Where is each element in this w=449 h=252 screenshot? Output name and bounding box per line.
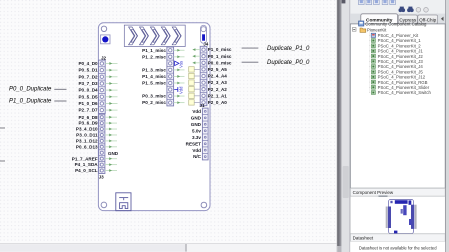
mounting hole top-right (201, 27, 206, 32)
component preview thumbnail (350, 195, 445, 233)
svg-text:N/C: N/C (193, 154, 202, 159)
PSoC 4 Pioneer Kit board outline U1 (98, 23, 210, 211)
off-chip terminal (yellow) (189, 73, 201, 78)
wire (105, 134, 117, 137)
wire (105, 145, 117, 148)
pin label P4_0_SCL (75, 168, 98, 173)
datasheet message (350, 241, 445, 252)
svg-text:P3_5_D5: P3_5_D5 (78, 94, 98, 99)
wire (105, 116, 117, 119)
pin label P3_4_D10 (76, 127, 98, 132)
svg-text:Vdd: Vdd (192, 109, 201, 114)
svg-text:P1_1_misc: P1_1_misc (142, 48, 166, 53)
wire (105, 69, 117, 72)
pin label P1_1_misc (142, 48, 166, 53)
svg-text:P0_7_D2: P0_7_D2 (78, 74, 98, 79)
wire (105, 163, 117, 166)
wire (105, 109, 117, 112)
power symbol Vss (175, 61, 184, 68)
off-chip terminal (yellow) (189, 67, 201, 72)
svg-text:J3: J3 (99, 175, 105, 180)
wire (105, 82, 117, 85)
tree item PSoC_4_PioneerKit_Switch (369, 90, 431, 95)
pin label P2_4_A4 (208, 74, 228, 79)
switch SW1 (101, 35, 110, 44)
svg-text:J1: J1 (200, 103, 206, 108)
wire (105, 75, 117, 78)
svg-text:P4_1_SDA: P4_1_SDA (75, 162, 99, 167)
component catalog tree (350, 21, 445, 188)
power symbol Vdd (174, 86, 183, 94)
pin label P2_7_D7 (78, 108, 98, 113)
wire (105, 102, 117, 105)
svg-text:Vss: Vss (179, 61, 184, 68)
chevron logo graphic (124, 25, 185, 46)
connector reference J3 (99, 175, 105, 180)
mounting hole bottom-right (201, 202, 207, 208)
svg-text:P0_3_misc: P0_3_misc (142, 94, 166, 99)
svg-text:J2: J2 (101, 55, 107, 60)
tree item PSoC_4_PioneerKit_J4 (369, 64, 423, 69)
wire (105, 89, 117, 92)
pin label P3_0_D11 (76, 133, 98, 138)
wire (105, 95, 117, 98)
LED D1 (201, 25, 207, 43)
svg-text:P0_1_misc: P0_1_misc (208, 54, 232, 59)
svg-text:P3_1_D12: P3_1_D12 (76, 138, 98, 143)
svg-text:P2_1_A1: P2_1_A1 (208, 93, 228, 98)
schematic canvas background (0, 0, 337, 252)
svg-text:P1_0_Duplicate: P1_0_Duplicate (9, 99, 52, 105)
svg-text:Duplicate_P0_0: Duplicate_P0_0 (267, 60, 310, 66)
pin label P0_5_D1 (78, 68, 98, 73)
pin label P0_4_D0 (78, 61, 98, 66)
pin label P1_5_misc (142, 81, 166, 86)
connector J2 (99, 60, 106, 113)
connector J12 (167, 47, 174, 106)
wire (105, 128, 117, 131)
connector J3 (99, 114, 105, 173)
svg-text:P2_5_A5: P2_5_A5 (208, 67, 228, 72)
svg-text:Component Preview: Component Preview (353, 190, 394, 195)
off-chip terminal (yellow) (189, 87, 201, 92)
wire (174, 95, 185, 98)
pin label P0_1_misc (208, 54, 232, 59)
svg-text:P2_2_A2: P2_2_A2 (208, 87, 228, 92)
wire (174, 82, 185, 85)
svg-text:P2_4_A4: P2_4_A4 (208, 74, 228, 79)
svg-text:P2_6_D8: P2_6_D8 (78, 115, 98, 120)
mounting hole top-left (101, 26, 106, 31)
Datasheet header (350, 234, 445, 242)
pin label P2_3_A3 (208, 80, 228, 85)
pin label P3_1_D12 (76, 138, 98, 143)
pin label P0_2_misc (142, 100, 166, 105)
pin label P1_7_AREF (72, 156, 98, 161)
svg-text:P2_3_A3: P2_3_A3 (208, 80, 228, 85)
wire (242, 61, 259, 63)
pin label Vdd (192, 148, 201, 153)
svg-text:PSoC_4_PioneerKit_Switch: PSoC_4_PioneerKit_Switch (378, 90, 432, 95)
svg-text:P3_7_D3: P3_7_D3 (78, 81, 98, 86)
pin label P0_3_misc (142, 94, 166, 99)
svg-text:P3_4_D10: P3_4_D10 (76, 127, 98, 132)
off-chip terminal (yellow) (189, 80, 201, 85)
svg-text:Datasheet is not available for: Datasheet is not available for the selec… (359, 245, 437, 250)
pin label P1_0_misc (208, 47, 232, 52)
toolbar icons (clipped) (359, 0, 396, 5)
svg-text:RESET: RESET (186, 141, 202, 146)
svg-text:P1_7_AREF: P1_7_AREF (72, 156, 98, 161)
svg-text:Datasheet: Datasheet (353, 236, 374, 241)
net label P0_0_Duplicate (9, 86, 52, 92)
svg-text:P1_0_misc: P1_0_misc (208, 47, 232, 52)
wire (193, 48, 201, 51)
wire (105, 157, 117, 160)
svg-text:P0_0_misc: P0_0_misc (208, 60, 232, 65)
canvas scrollbar / window edge (337, 0, 351, 252)
wire (54, 88, 66, 90)
svg-text:P2_0_A0: P2_0_A0 (208, 100, 228, 105)
off-chip terminal (yellow) (189, 93, 201, 98)
Component Preview header (350, 188, 445, 196)
tree item PSoC_4_PioneerKit_2 (369, 43, 421, 48)
pin label P0_0_misc (208, 60, 232, 65)
pin label GND (191, 122, 202, 127)
svg-text:P3_0_D11: P3_0_D11 (76, 133, 98, 138)
tree item PSoC_4_PioneerKit_Slider (369, 85, 429, 90)
pin label P2_6_D8 (78, 115, 98, 120)
svg-text:P1_5_misc: P1_5_misc (142, 81, 166, 86)
tree item PSoC_4_PioneerKit_1 (369, 38, 421, 43)
connector reference J1 (200, 103, 206, 108)
svg-text:P1_0_D6: P1_0_D6 (78, 101, 98, 106)
tree item PSoC_4_PioneerKit_J5 (369, 69, 423, 74)
svg-text:Duplicate_P1_0: Duplicate_P1_0 (267, 46, 310, 52)
svg-text:P2_7_D7: P2_7_D7 (78, 108, 98, 113)
pin label GND (191, 115, 202, 120)
pin label P1_3_misc (142, 67, 166, 72)
svg-text:J4: J4 (203, 42, 209, 47)
svg-text:GND: GND (191, 115, 202, 120)
tree item PSoC_4_PioneerKit_J2 (369, 54, 423, 59)
svg-text:Vdd: Vdd (192, 148, 201, 153)
net label Duplicate_P1_0 (267, 46, 310, 52)
wire (54, 100, 66, 102)
tree item PSoC_4_PioneerKit_J1 (369, 49, 423, 54)
svg-text:P4_0_SCL: P4_0_SCL (75, 168, 98, 173)
right panel background (350, 0, 449, 252)
pin label P2_2_A2 (208, 87, 228, 92)
svg-text:P0_0_Duplicate: P0_0_Duplicate (9, 86, 52, 92)
svg-text:Vdd: Vdd (179, 86, 184, 94)
connector reference J4 (203, 42, 209, 47)
svg-text:P3_6_D9: P3_6_D9 (78, 121, 98, 126)
pin label P1_4_misc (142, 74, 166, 79)
USB connector J10 (116, 193, 131, 211)
pin label 3.3v (192, 135, 201, 140)
pin label P2_1_A1 (208, 93, 228, 98)
svg-text:P1_3_misc: P1_3_misc (142, 67, 166, 72)
pin label P3_6_D9 (78, 121, 98, 126)
connector reference J2 (101, 55, 107, 60)
pin label P3_5_D5 (78, 94, 98, 99)
net label Duplicate_P0_0 (267, 60, 310, 66)
pin label RESET (186, 141, 202, 146)
connector J4 (200, 46, 207, 105)
search toolbar icons (399, 7, 429, 13)
pin label P0_7_D2 (78, 74, 98, 79)
svg-text:P0_2_misc: P0_2_misc (142, 100, 166, 105)
mounting hole bottom-left (101, 202, 107, 208)
pin label P3_7_D3 (78, 81, 98, 86)
svg-text:PioneerKit: PioneerKit (367, 28, 387, 33)
wire (105, 122, 117, 125)
svg-text:P1_2_misc: P1_2_misc (142, 54, 166, 59)
wire (242, 47, 259, 49)
svg-text:5.0v: 5.0v (192, 128, 201, 133)
wire (174, 75, 185, 78)
wire (174, 49, 185, 52)
pin label P0_0_D4 (78, 88, 98, 93)
off-chip terminal (yellow) (189, 100, 201, 105)
wire (105, 169, 117, 172)
pin label P2_5_A5 (208, 67, 228, 72)
svg-text:GND: GND (191, 122, 202, 127)
tree guide lines (368, 32, 370, 93)
pin label GND (108, 151, 119, 156)
wire (193, 55, 201, 58)
pin label N/C (193, 154, 202, 159)
connector J1 (202, 108, 208, 160)
svg-text:GND: GND (108, 151, 119, 156)
pin label P2_0_A0 (208, 100, 228, 105)
svg-text:P0_0_D4: P0_0_D4 (78, 88, 98, 93)
pin label P0_6_D13 (76, 144, 98, 149)
wire (174, 68, 185, 71)
svg-text:P0_6_D13: P0_6_D13 (76, 144, 98, 149)
window edge (445, 0, 449, 252)
pin label 5.0v (192, 128, 201, 133)
svg-text:P1_4_misc: P1_4_misc (142, 74, 166, 79)
wire (193, 61, 201, 64)
wire (174, 101, 185, 104)
svg-text:P0_4_D0: P0_4_D0 (78, 61, 98, 66)
panel tabs (350, 14, 449, 24)
svg-text:3.3v: 3.3v (192, 135, 201, 140)
tree item PSoC_4_PioneerKit_J12 (369, 75, 425, 80)
pin label Vdd (192, 109, 201, 114)
tree item PSoC_4_PioneerKit_J3 (369, 59, 423, 64)
tree item PSoC_4_Pioneer_Kit (369, 33, 419, 38)
wire (105, 139, 117, 142)
net label P1_0_Duplicate (9, 99, 52, 105)
pin label P1_0_D6 (78, 101, 98, 106)
pin label P4_1_SDA (75, 162, 99, 167)
wire (105, 62, 117, 65)
pin label P1_2_misc (142, 54, 166, 59)
svg-text:P0_5_D1: P0_5_D1 (78, 68, 98, 73)
tree item PSoC_4_PioneerKit_RGB (369, 80, 427, 85)
wire (174, 55, 185, 58)
svg-text:Community Component Catalog: Community Component Catalog (365, 22, 427, 27)
